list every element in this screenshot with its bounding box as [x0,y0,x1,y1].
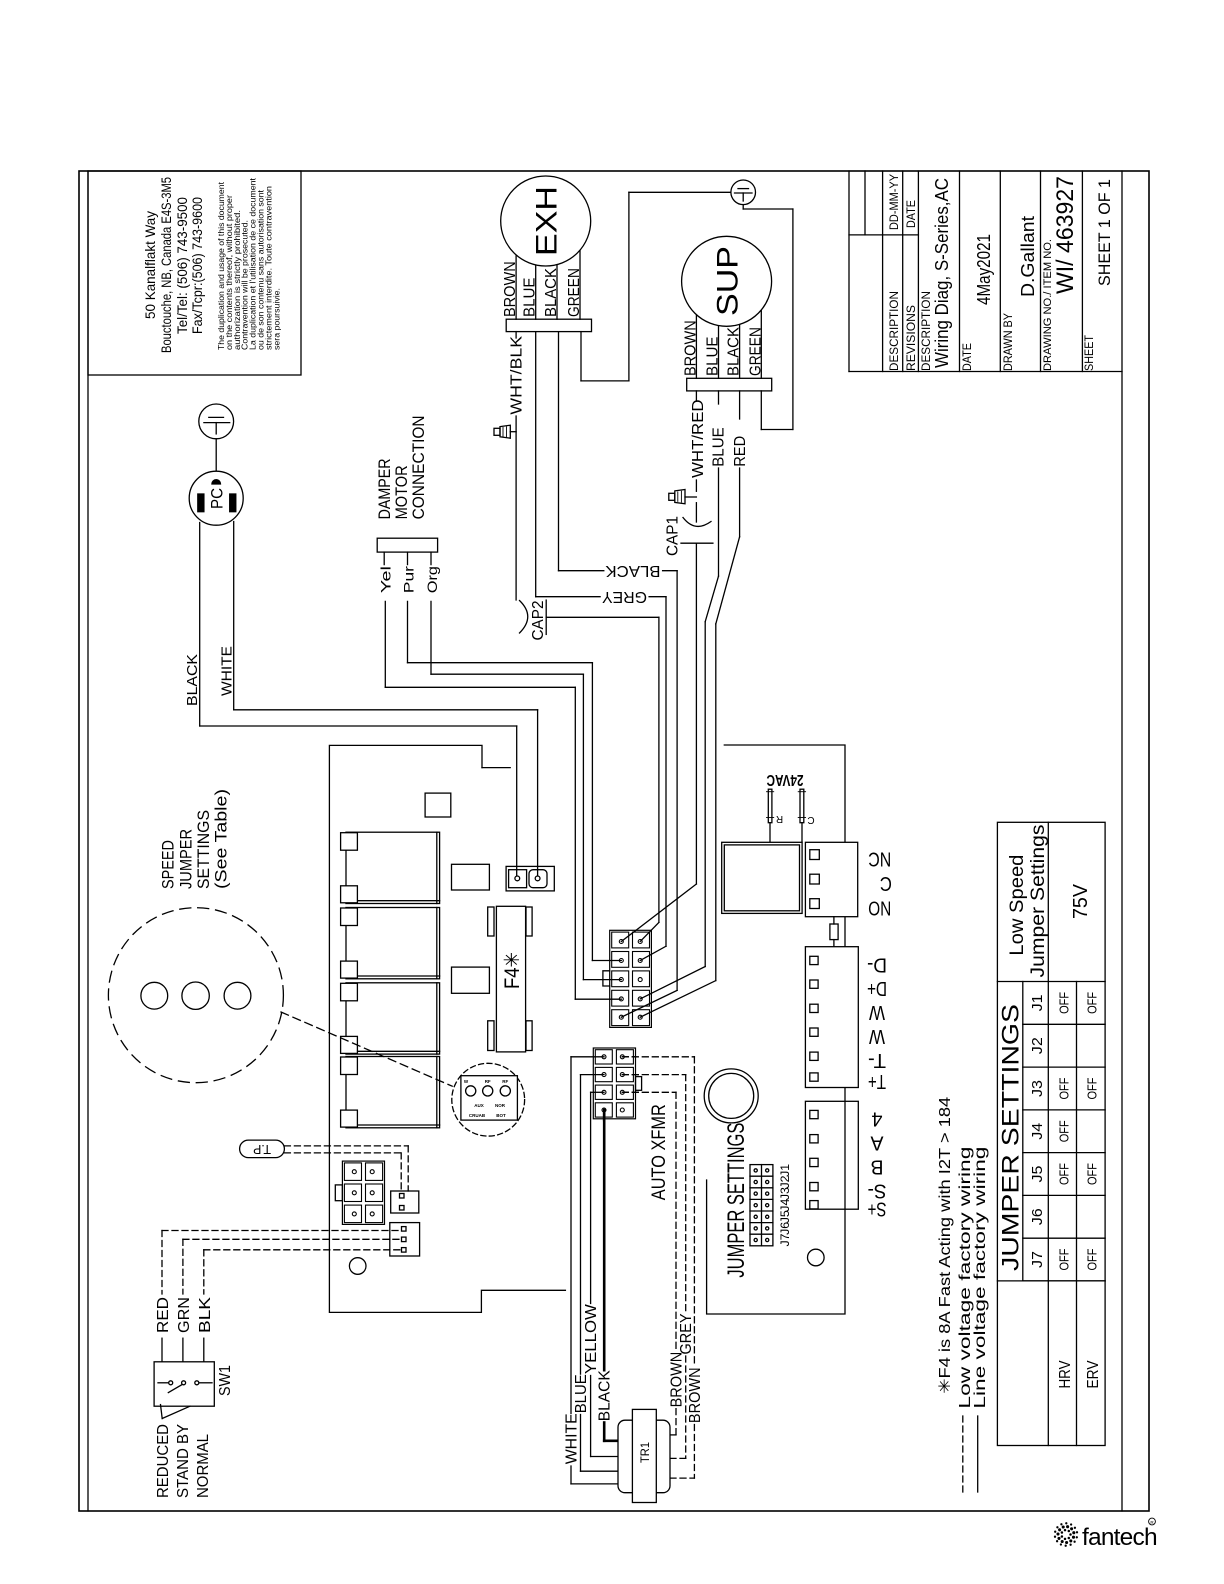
svg-text:CAP1: CAP1 [664,516,681,556]
svg-text:RED: RED [155,1297,172,1333]
svg-text:BROWN: BROWN [687,1367,704,1423]
svg-text:J1: J1 [1029,994,1046,1011]
svg-text:SETTINGS: SETTINGS [194,810,213,889]
svg-text:BROWN: BROWN [682,320,699,376]
svg-text:REDUCED: REDUCED [155,1424,172,1498]
svg-text:ERV: ERV [1085,1360,1102,1388]
svg-text:SPEED: SPEED [159,840,178,889]
svg-text:75V: 75V [1070,883,1092,919]
svg-text:NO: NO [868,897,891,919]
svg-text:SW1: SW1 [217,1365,234,1396]
svg-text:Low Speed: Low Speed [1007,855,1028,956]
svg-text:SUP: SUP [712,246,745,316]
svg-text:J3: J3 [778,1187,792,1200]
svg-text:RF: RF [502,1079,508,1084]
svg-text:BROWN: BROWN [669,1352,686,1408]
svg-text:J2: J2 [778,1175,792,1188]
svg-text:REVISIONS: REVISIONS [904,305,918,371]
svg-text:T.P: T.P [253,1142,271,1157]
svg-text:HRV: HRV [1057,1360,1074,1388]
svg-text:WHT/BLK: WHT/BLK [509,336,526,415]
svg-text:J6: J6 [1029,1208,1046,1225]
svg-text:AUTO XFMR: AUTO XFMR [649,1104,670,1200]
svg-text:(See Table): (See Table) [212,789,231,889]
svg-text:W: W [869,1025,885,1047]
svg-text:OFF: OFF [1085,1163,1100,1185]
svg-text:Tel/Tel: (506) 743-9500: Tel/Tel: (506) 743-9500 [174,197,190,334]
svg-text:BLUE: BLUE [705,337,722,377]
svg-text:Org: Org [424,566,440,593]
svg-text:NOR: NOR [495,1103,506,1108]
svg-text:OFF: OFF [1085,1249,1100,1271]
svg-text:Bouctouche, NB, Canada E4S-3M5: Bouctouche, NB, Canada E4S-3M5 [158,177,174,353]
svg-text:DD-MM-YY: DD-MM-YY [887,174,901,230]
svg-text:WHITE: WHITE [564,1413,581,1464]
svg-text:J7: J7 [778,1233,792,1246]
svg-text:Fax/Tcpr:(506) 743-9600: Fax/Tcpr:(506) 743-9600 [189,197,205,334]
svg-text:24VAC: 24VAC [766,771,803,788]
svg-text:OFF: OFF [1057,1120,1072,1142]
svg-text:J7: J7 [1029,1251,1046,1268]
svg-text:WHITE: WHITE [219,646,236,696]
svg-text:J5: J5 [778,1210,792,1223]
svg-text:W: W [869,1001,885,1023]
svg-text:PC: PC [208,488,227,509]
svg-text:F4✳: F4✳ [501,952,524,989]
svg-text:C: C [807,814,814,825]
svg-text:D+: D+ [867,977,887,999]
svg-text:JUMPER SETTINGS: JUMPER SETTINGS [723,1123,750,1278]
svg-text:GRN: GRN [176,1297,193,1333]
svg-text:OFF: OFF [1057,1077,1072,1099]
svg-text:J4: J4 [778,1198,792,1211]
svg-text:OFF: OFF [1085,992,1100,1014]
svg-text:OFF: OFF [1057,992,1072,1014]
svg-text:GREEN: GREEN [566,268,583,317]
svg-text:RF: RF [485,1079,491,1084]
svg-text:AUX: AUX [474,1103,484,1108]
svg-text:sera poursuivie.: sera poursuivie. [272,288,281,350]
svg-text:BLUE: BLUE [573,1374,590,1413]
svg-text:D.Gallant: D.Gallant [1018,216,1038,297]
svg-text:BLACK: BLACK [726,327,743,376]
svg-text:STAND BY: STAND BY [175,1424,192,1498]
svg-text:J5: J5 [1029,1166,1046,1183]
svg-text:J6: J6 [778,1222,792,1235]
svg-text:JUMPER SETTINGS: JUMPER SETTINGS [998,1004,1025,1271]
svg-text:A: A [870,1132,884,1154]
svg-text:YELLOW: YELLOW [583,1303,600,1374]
svg-text:RED: RED [732,436,749,467]
svg-text:WI/ 463927: WI/ 463927 [1052,176,1079,294]
svg-text:BLK: BLK [197,1297,214,1333]
svg-text:BOT: BOT [496,1113,506,1118]
svg-text:J4: J4 [1029,1123,1046,1140]
svg-text:DRAWN BY: DRAWN BY [1001,313,1015,371]
svg-text:EXH: EXH [531,186,564,256]
svg-text:WHT/RED: WHT/RED [690,399,707,478]
svg-text:Wiring Diag, S-Series,AC: Wiring Diag, S-Series,AC [932,178,952,368]
svg-text:BLACK: BLACK [184,654,201,706]
svg-text:Jumper Settings: Jumper Settings [1028,825,1049,978]
svg-text:B: B [871,1155,884,1177]
svg-text:GREY: GREY [602,588,647,605]
svg-text:DATE: DATE [904,200,918,228]
svg-text:BROWN: BROWN [502,261,519,317]
svg-text:BLACK: BLACK [605,562,660,579]
svg-text:GREEN: GREEN [747,327,764,376]
svg-text:DESCRIPTION: DESCRIPTION [919,291,933,371]
svg-text:CONNECTION: CONNECTION [409,415,428,519]
svg-text:CRUAB: CRUAB [469,1113,486,1118]
svg-text:OFF: OFF [1057,1249,1072,1271]
svg-text:BLACK: BLACK [543,268,560,317]
svg-text:Pur: Pur [401,566,417,593]
svg-text:J2: J2 [1029,1037,1046,1054]
svg-text:JUMPER: JUMPER [177,829,196,889]
svg-text:50 Kanalflakt Way: 50 Kanalflakt Way [142,211,158,319]
svg-text:R: R [776,813,783,824]
svg-text:J1: J1 [778,1164,792,1177]
svg-text:T-: T- [868,1049,886,1071]
svg-text:Yel: Yel [378,566,394,593]
svg-text:OFF: OFF [1085,1077,1100,1099]
svg-text:BLUE: BLUE [522,278,539,318]
svg-text:C: C [880,872,892,894]
svg-text:TR1: TR1 [638,1442,652,1463]
svg-text:DESCRIPTION: DESCRIPTION [887,291,901,371]
svg-text:J3: J3 [1029,1080,1046,1097]
svg-text:BLUE: BLUE [711,427,728,467]
svg-text:CAP2: CAP2 [530,600,547,640]
svg-text:T+: T+ [868,1070,886,1092]
svg-text:4May2021: 4May2021 [974,234,994,305]
svg-text:BLACK: BLACK [597,1370,614,1421]
svg-text:SHEET 1 OF 1: SHEET 1 OF 1 [1095,179,1114,286]
svg-text:S+: S+ [868,1198,887,1220]
svg-text:DATE: DATE [960,343,974,371]
svg-text:D-: D- [867,953,887,975]
svg-text:✳F4 is 8A Fast Acting with I2T: ✳F4 is 8A Fast Acting with I2T > 184 [937,1097,954,1394]
svg-text:OFF: OFF [1057,1163,1072,1185]
svg-text:fantech: fantech [1082,1524,1157,1551]
svg-text:NC: NC [868,848,891,870]
svg-text:Line voltage factory wiring: Line voltage factory wiring [972,1147,989,1409]
svg-text:SHEET: SHEET [1082,334,1096,371]
svg-text:GREY: GREY [678,1313,695,1354]
svg-text:NORMAL: NORMAL [195,1434,212,1498]
svg-text:4: 4 [872,1107,883,1129]
